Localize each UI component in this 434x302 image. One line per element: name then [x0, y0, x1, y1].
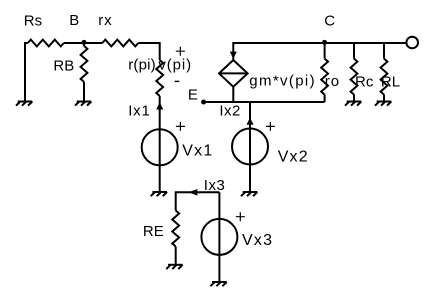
svg-text:Ix2: Ix2	[219, 103, 241, 120]
svg-text:r(pi): r(pi)	[128, 57, 156, 74]
svg-text:Vx1: Vx1	[182, 142, 213, 159]
svg-text:Vx3: Vx3	[242, 232, 273, 249]
svg-text:Vx2: Vx2	[278, 148, 309, 165]
svg-text:B: B	[69, 12, 79, 29]
svg-text:Rc: Rc	[355, 74, 374, 91]
svg-text:RE: RE	[143, 223, 164, 240]
svg-text:C: C	[324, 13, 335, 30]
svg-text:E: E	[188, 86, 198, 103]
svg-text:ro: ro	[325, 73, 340, 90]
svg-text:v(pi): v(pi)	[158, 57, 192, 74]
svg-text:rx: rx	[98, 12, 112, 29]
svg-text:Rs: Rs	[24, 13, 42, 30]
svg-text:RL: RL	[381, 74, 400, 91]
svg-text:gm*v(pi): gm*v(pi)	[249, 73, 316, 90]
svg-text:RB: RB	[53, 57, 74, 74]
svg-text:Ix1: Ix1	[128, 102, 150, 119]
svg-text:Ix3: Ix3	[204, 177, 226, 194]
